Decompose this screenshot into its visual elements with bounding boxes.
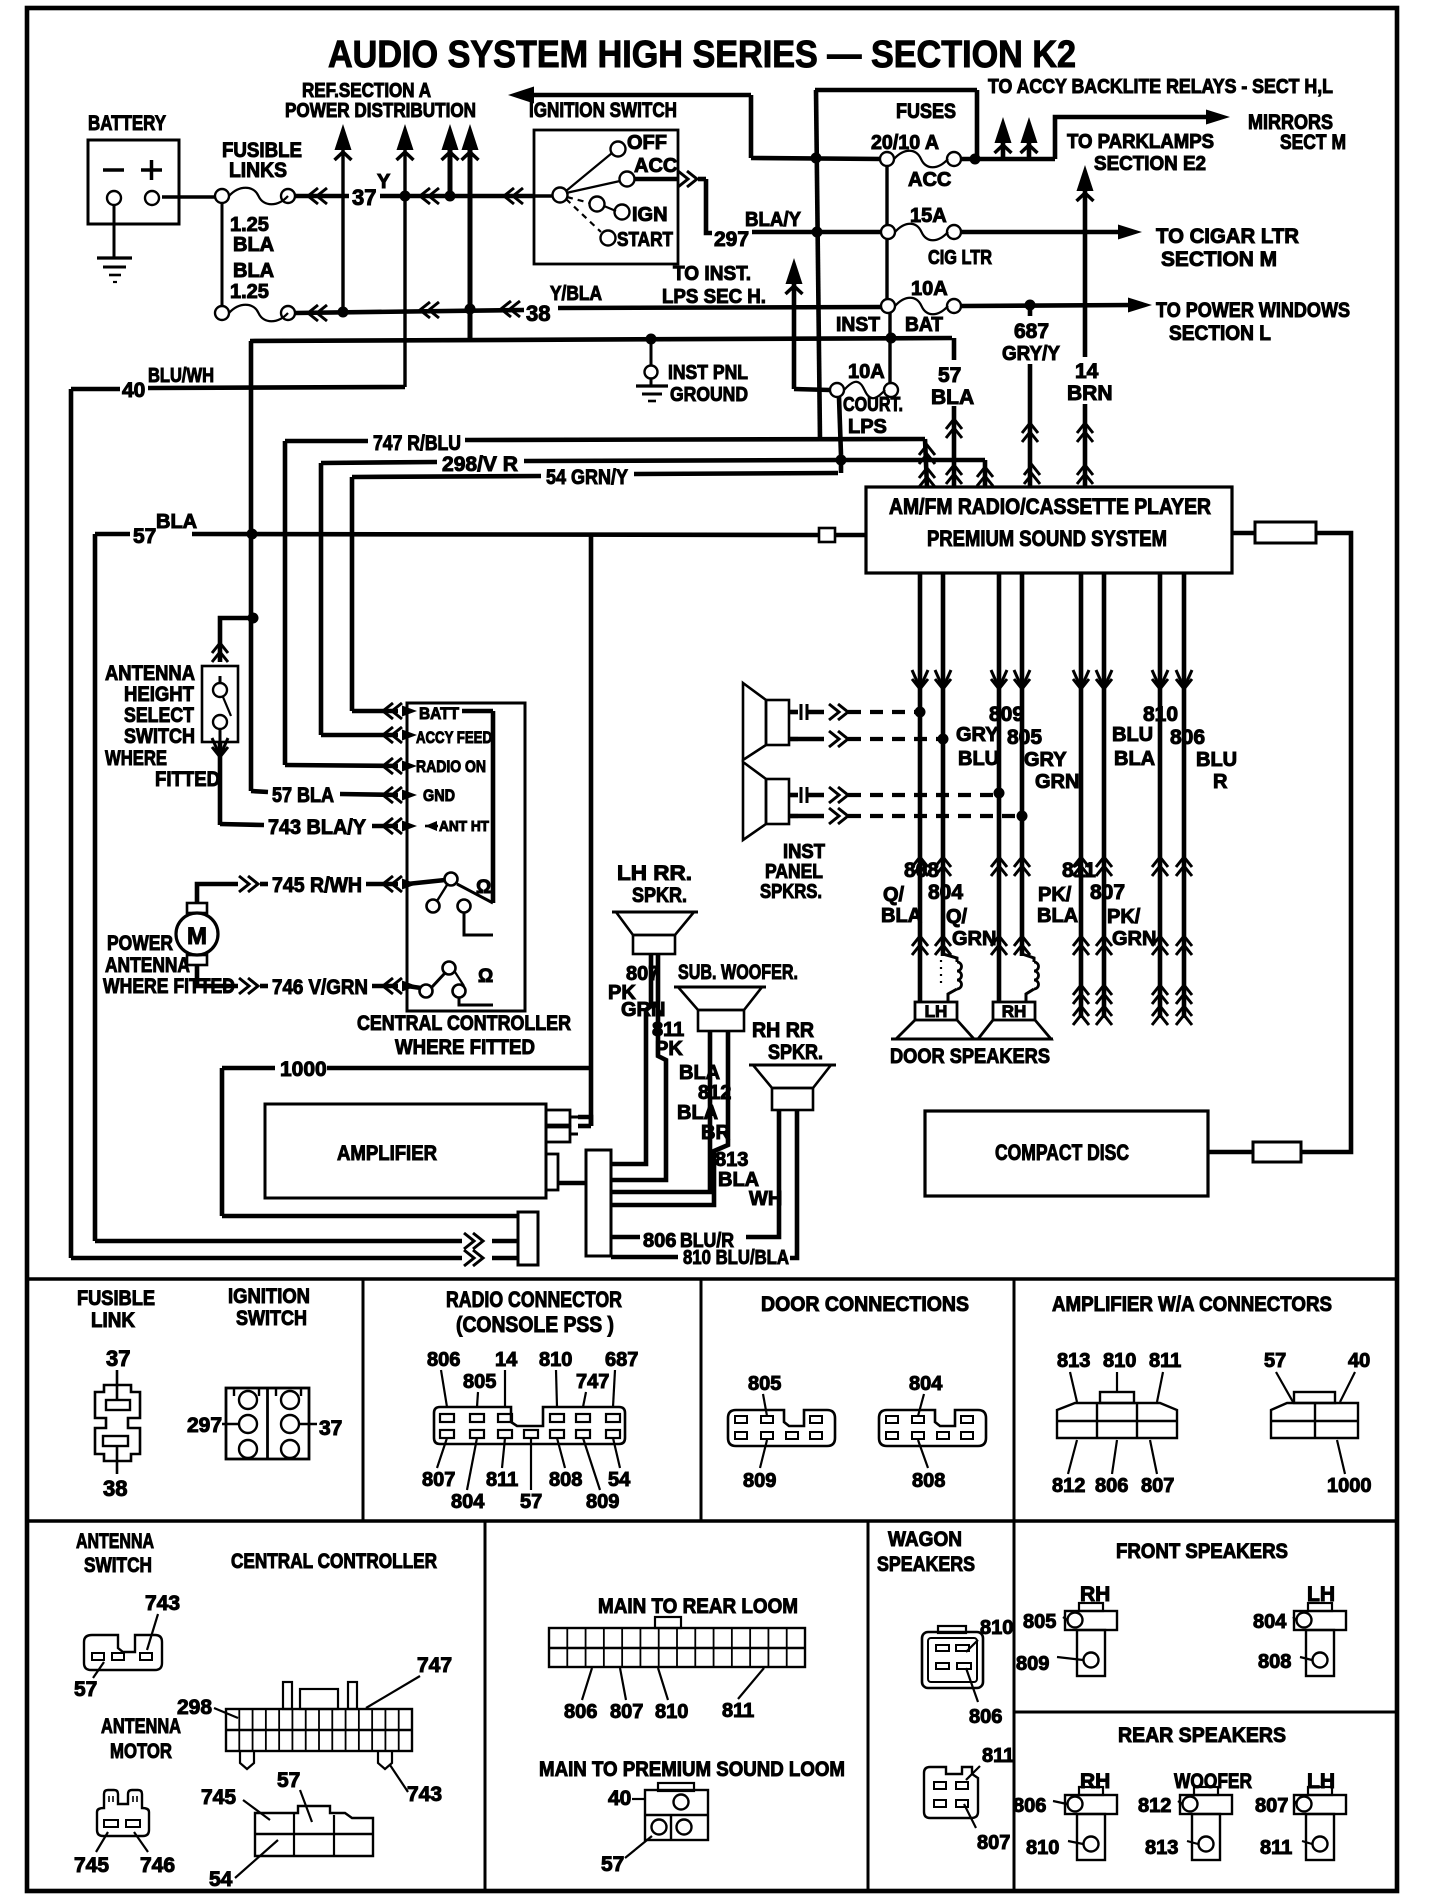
svg-text:ANTENNA: ANTENNA [105,662,195,685]
svg-text:CIG LTR: CIG LTR [928,247,992,269]
svg-text:DOOR CONNECTIONS: DOOR CONNECTIONS [761,1293,969,1316]
svg-text:POWER DISTRIBUTION: POWER DISTRIBUTION [285,100,476,122]
svg-text:806: 806 [427,1349,460,1371]
svg-text:812: 812 [1138,1795,1171,1817]
svg-text:GRY/Y: GRY/Y [1002,343,1061,365]
svg-text:806: 806 [1013,1795,1046,1817]
svg-text:687: 687 [605,1349,638,1371]
svg-text:Q/: Q/ [946,906,968,928]
svg-text:BLA: BLA [233,260,274,282]
svg-text:812: 812 [698,1082,731,1104]
svg-text:54 GRN/Y: 54 GRN/Y [546,466,628,489]
svg-text:810: 810 [1026,1837,1059,1859]
svg-text:38: 38 [103,1476,127,1501]
svg-text:37: 37 [352,185,376,210]
svg-text:MOTOR: MOTOR [110,1740,172,1763]
svg-text:747: 747 [417,1654,452,1677]
svg-text:TO INST.: TO INST. [673,263,751,285]
svg-text:10A: 10A [848,361,885,383]
svg-text:INST PNL: INST PNL [668,362,748,384]
svg-text:INST: INST [783,841,825,863]
svg-text:CENTRAL CONTROLLER: CENTRAL CONTROLLER [231,1550,437,1573]
svg-text:PK: PK [655,1038,683,1060]
svg-text:810: 810 [980,1617,1013,1639]
svg-text:ACCY FEED: ACCY FEED [416,728,492,747]
svg-text:(CONSOLE PSS ): (CONSOLE PSS ) [456,1312,614,1337]
svg-text:FUSIBLE: FUSIBLE [77,1287,155,1310]
svg-text:POWER: POWER [107,932,173,955]
svg-text:14: 14 [495,1349,518,1371]
svg-text:1000: 1000 [280,1058,327,1081]
svg-text:745 R/WH: 745 R/WH [272,874,362,897]
svg-text:806: 806 [1095,1475,1128,1497]
svg-text:ANTENNA: ANTENNA [76,1530,154,1553]
svg-text:GRY: GRY [956,724,999,746]
svg-text:HEIGHT: HEIGHT [124,683,194,706]
svg-text:808: 808 [912,1470,945,1492]
svg-text:1.25: 1.25 [230,281,269,303]
svg-text:AM/FM RADIO/CASSETTE PLAYER: AM/FM RADIO/CASSETTE PLAYER [889,494,1211,519]
svg-text:LPS SEC H.: LPS SEC H. [662,286,766,308]
svg-text:IGNITION: IGNITION [228,1285,310,1308]
svg-text:746: 746 [140,1854,175,1877]
svg-text:806: 806 [1170,726,1205,749]
svg-text:PK/: PK/ [1107,906,1141,928]
svg-text:810: 810 [539,1349,572,1371]
svg-text:298/V R: 298/V R [442,453,518,476]
svg-text:813: 813 [715,1149,748,1171]
svg-text:REAR SPEAKERS: REAR SPEAKERS [1118,1724,1286,1747]
svg-text:FITTED: FITTED [155,768,220,791]
svg-text:SWITCH: SWITCH [124,725,195,748]
svg-text:807: 807 [1255,1795,1288,1817]
svg-text:Q/: Q/ [883,884,905,906]
svg-text:809: 809 [743,1470,776,1492]
svg-text:809: 809 [989,703,1024,726]
svg-text:1000: 1000 [1327,1475,1372,1497]
svg-text:745: 745 [201,1786,236,1809]
svg-text:298: 298 [177,1696,212,1719]
svg-text:57 BLA: 57 BLA [272,784,334,807]
svg-text:ACC: ACC [908,169,951,191]
svg-text:BRN: BRN [1067,382,1113,405]
svg-text:BLA: BLA [233,234,274,256]
svg-text:PREMIUM SOUND SYSTEM: PREMIUM SOUND SYSTEM [927,526,1167,551]
svg-text:ACC: ACC [634,155,677,177]
svg-text:804: 804 [451,1491,485,1513]
svg-text:747: 747 [576,1371,609,1393]
svg-text:AMPLIFIER: AMPLIFIER [337,1142,437,1165]
svg-text:IGNITION SWITCH: IGNITION SWITCH [529,99,677,122]
svg-text:809: 809 [586,1491,619,1513]
svg-text:806: 806 [643,1230,676,1252]
svg-text:MAIN TO PREMIUM SOUND LOOM: MAIN TO PREMIUM SOUND LOOM [539,1758,845,1781]
svg-text:TO PARKLAMPS: TO PARKLAMPS [1067,131,1214,153]
svg-text:804: 804 [1253,1611,1287,1633]
svg-text:COMPACT DISC: COMPACT DISC [995,1140,1129,1165]
svg-text:LH RR.: LH RR. [617,862,692,885]
svg-text:57: 57 [520,1491,542,1513]
svg-text:54: 54 [209,1868,233,1891]
svg-text:Ω: Ω [478,966,493,987]
svg-text:38: 38 [526,301,550,326]
svg-text:805: 805 [748,1373,781,1395]
svg-text:PANEL: PANEL [765,861,823,883]
svg-text:BLA: BLA [156,511,197,533]
svg-text:LH: LH [925,1002,948,1021]
svg-text:RADIO CONNECTOR: RADIO CONNECTOR [446,1287,622,1312]
svg-text:BLA: BLA [1037,905,1078,927]
svg-text:GRN: GRN [621,999,665,1021]
svg-text:811: 811 [1260,1837,1292,1859]
svg-text:OFF: OFF [627,132,667,154]
svg-text:57: 57 [133,525,156,548]
svg-text:743: 743 [407,1783,442,1806]
svg-text:57: 57 [74,1678,97,1701]
svg-text:SECT M: SECT M [1280,131,1346,154]
svg-text:813: 813 [1145,1837,1178,1859]
svg-text:806: 806 [969,1706,1002,1728]
svg-text:808: 808 [549,1469,582,1491]
svg-text:743: 743 [145,1592,180,1615]
svg-text:810 BLU/BLA: 810 BLU/BLA [683,1247,789,1269]
svg-text:40: 40 [608,1787,631,1810]
svg-text:PK/: PK/ [1038,884,1072,906]
svg-text:297: 297 [187,1414,222,1437]
svg-text:810: 810 [1103,1350,1136,1372]
svg-text:BLA: BLA [679,1062,720,1084]
svg-text:FUSES: FUSES [896,100,956,123]
svg-text:811: 811 [486,1469,518,1491]
svg-text:57: 57 [277,1769,300,1792]
svg-text:RADIO ON: RADIO ON [416,757,486,776]
svg-text:SECTION L: SECTION L [1169,322,1271,345]
svg-text:Y: Y [377,171,391,193]
svg-text:15A: 15A [910,205,947,227]
svg-text:805: 805 [1007,726,1042,749]
svg-text:37: 37 [106,1346,130,1371]
svg-text:BATT: BATT [419,704,460,723]
svg-text:LPS: LPS [848,416,887,438]
svg-text:DOOR SPEAKERS: DOOR SPEAKERS [890,1045,1050,1068]
svg-text:BATTERY: BATTERY [88,112,166,135]
svg-text:57: 57 [938,364,961,387]
svg-text:SELECT: SELECT [124,704,194,727]
svg-text:SPKRS.: SPKRS. [760,881,822,903]
svg-text:WHERE FITTED: WHERE FITTED [395,1036,535,1059]
svg-text:LINK: LINK [91,1309,135,1332]
svg-text:40: 40 [1348,1350,1370,1372]
svg-text:809: 809 [1016,1653,1049,1675]
svg-text:ANT HT: ANT HT [439,818,489,835]
svg-text:START: START [617,229,673,251]
svg-text:SWITCH: SWITCH [84,1554,152,1577]
svg-text:BLA: BLA [881,905,922,927]
svg-text:M: M [187,923,207,950]
svg-text:BR: BR [701,1122,730,1144]
svg-text:1.25: 1.25 [230,214,269,236]
svg-text:743 BLA/Y: 743 BLA/Y [268,816,366,839]
svg-text:R: R [1213,771,1228,793]
svg-text:BLA: BLA [931,386,974,409]
svg-text:LINKS: LINKS [229,159,287,182]
svg-text:57: 57 [1264,1350,1286,1372]
svg-text:BAT: BAT [905,314,943,336]
svg-text:811: 811 [982,1745,1014,1767]
svg-text:SWITCH: SWITCH [236,1307,307,1330]
svg-text:745: 745 [74,1854,109,1877]
svg-text:804: 804 [928,881,963,904]
svg-text:WHERE: WHERE [105,747,167,770]
svg-text:Y/BLA: Y/BLA [550,283,602,305]
svg-text:ANTENNA: ANTENNA [101,1715,181,1738]
svg-text:TO CIGAR LTR: TO CIGAR LTR [1156,225,1299,248]
svg-text:40: 40 [122,379,145,402]
svg-text:805: 805 [1023,1611,1056,1633]
svg-text:37: 37 [319,1417,342,1440]
svg-text:MAIN TO REAR LOOM: MAIN TO REAR LOOM [598,1595,798,1618]
svg-text:RH RR: RH RR [752,1019,814,1042]
svg-text:REF.SECTION A: REF.SECTION A [302,80,431,102]
svg-text:813: 813 [1057,1350,1090,1372]
svg-text:SECTION E2: SECTION E2 [1094,153,1206,175]
svg-text:807: 807 [977,1832,1010,1854]
svg-text:BLU: BLU [958,748,999,770]
svg-text:807: 807 [1090,881,1125,904]
svg-text:SECTION M: SECTION M [1161,248,1277,271]
svg-text:811: 811 [1149,1350,1181,1372]
svg-text:COURT.: COURT. [843,394,903,416]
svg-text:RH: RH [1002,1002,1027,1021]
svg-text:AMPLIFIER W/A CONNECTORS: AMPLIFIER W/A CONNECTORS [1052,1293,1332,1316]
svg-text:54: 54 [608,1469,631,1491]
svg-text:BLU: BLU [1112,724,1153,746]
svg-text:808: 808 [1258,1651,1291,1673]
svg-text:687: 687 [1014,320,1049,343]
svg-text:AUDIO SYSTEM HIGH SERIES — SEC: AUDIO SYSTEM HIGH SERIES — SECTION K2 [328,34,1076,76]
svg-text:RH: RH [1080,1770,1110,1793]
svg-text:SUB. WOOFER.: SUB. WOOFER. [678,961,798,984]
svg-text:BLA: BLA [1114,748,1155,770]
svg-text:GRN: GRN [952,928,996,950]
svg-text:812: 812 [1052,1475,1085,1497]
svg-text:LH: LH [1307,1770,1335,1793]
svg-text:GRY: GRY [1024,749,1067,771]
svg-text:807: 807 [1141,1475,1174,1497]
svg-text:BLA: BLA [677,1102,718,1124]
svg-text:747 R/BLU: 747 R/BLU [373,432,461,455]
svg-text:GND: GND [423,786,455,805]
svg-text:297: 297 [714,228,749,251]
svg-text:Ω: Ω [476,877,491,898]
svg-text:14: 14 [1075,360,1099,383]
svg-text:WOOFER: WOOFER [1174,1770,1252,1793]
svg-text:CENTRAL CONTROLLER: CENTRAL CONTROLLER [357,1012,571,1035]
svg-text:INST: INST [836,314,880,336]
svg-text:BLU/WH: BLU/WH [148,365,214,387]
svg-text:WH: WH [749,1188,782,1210]
svg-text:WAGON: WAGON [888,1528,962,1551]
svg-text:BLA/Y: BLA/Y [745,209,802,231]
svg-text:804: 804 [909,1373,943,1395]
svg-text:GRN: GRN [1035,771,1079,793]
svg-text:811: 811 [722,1700,754,1722]
svg-text:806: 806 [564,1701,597,1723]
svg-text:BLU: BLU [1196,749,1237,771]
svg-text:805: 805 [463,1371,496,1393]
svg-text:SPEAKERS: SPEAKERS [877,1553,975,1576]
svg-text:ANTENNA: ANTENNA [105,954,190,977]
svg-text:SPKR.: SPKR. [632,884,687,907]
svg-text:GRN: GRN [1112,928,1156,950]
svg-text:FRONT SPEAKERS: FRONT SPEAKERS [1116,1540,1288,1563]
svg-text:810: 810 [655,1701,688,1723]
svg-text:SPKR.: SPKR. [768,1041,823,1064]
svg-text:746 V/GRN: 746 V/GRN [272,976,368,999]
svg-text:TO POWER WINDOWS: TO POWER WINDOWS [1156,299,1350,322]
svg-text:TO ACCY BACKLITE RELAYS - SECT: TO ACCY BACKLITE RELAYS - SECT H,L [988,76,1333,98]
svg-text:57: 57 [601,1853,624,1876]
svg-text:807: 807 [610,1701,643,1723]
svg-text:GROUND: GROUND [670,384,748,406]
svg-text:807: 807 [422,1469,455,1491]
svg-text:IGN: IGN [632,204,668,226]
svg-text:10A: 10A [911,278,948,300]
